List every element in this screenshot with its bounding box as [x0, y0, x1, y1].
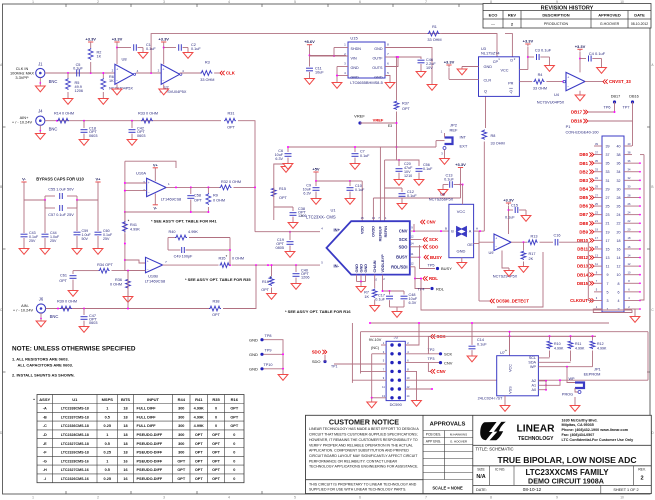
- svg-text:300: 300: [178, 433, 184, 437]
- svg-text:C3 0.1uF: C3 0.1uF: [535, 48, 552, 53]
- svg-text:DC590_DETECT: DC590_DETECT: [496, 299, 529, 304]
- svg-text:-E: -E: [43, 442, 47, 446]
- svg-text:SCALE = NONE: SCALE = NONE: [432, 485, 463, 490]
- svg-text:C49 100pF: C49 100pF: [174, 255, 193, 259]
- svg-text:2: 2: [97, 0, 99, 4]
- ground C2: [187, 50, 189, 53]
- ground C7: [354, 161, 356, 164]
- net label SCK: [423, 237, 428, 241]
- svg-text:LT1469CS8: LT1469CS8: [145, 278, 165, 283]
- svg-text:DB16: DB16: [571, 119, 583, 124]
- svg-text:TECHNOLOGY APPLICATIONS ENGINE: TECHNOLOGY APPLICATIONS ENGINEERING FOR …: [309, 465, 418, 469]
- capacitor C46: [418, 59, 425, 61]
- svg-text:LTC2326CMS-18: LTC2326CMS-18: [61, 451, 89, 455]
- svg-text:GND: GND: [484, 65, 493, 69]
- svg-text:−: −: [162, 78, 164, 82]
- svg-text:BNC: BNC: [49, 79, 58, 84]
- svg-text:7: 7: [425, 496, 427, 500]
- svg-text:SDO: SDO: [312, 350, 322, 355]
- wire 8.6V rail: [309, 48, 311, 67]
- svg-text:+ / - 10.24V: + / - 10.24V: [12, 120, 33, 125]
- svg-text:0603: 0603: [89, 134, 97, 138]
- svg-text:WP: WP: [530, 365, 536, 369]
- wire U6 OE: [474, 243, 479, 245]
- svg-text:A0: A0: [531, 388, 536, 392]
- svg-text:*: *: [301, 214, 303, 219]
- resistor R14: [57, 118, 69, 123]
- svg-text:C55 1.0uF 50V: C55 1.0uF 50V: [48, 188, 74, 192]
- svg-text:0.5: 0.5: [105, 468, 110, 472]
- wire R15 down: [273, 199, 275, 221]
- svg-text:SCK: SCK: [399, 237, 408, 242]
- svg-text:TP9: TP9: [265, 349, 272, 353]
- svg-text:R14 0 OHM: R14 0 OHM: [54, 112, 74, 116]
- svg-text:*: *: [128, 219, 130, 224]
- svg-text:R7: R7: [364, 291, 369, 295]
- ground C14: [471, 354, 473, 357]
- IC U6 NC7SZ66: [449, 204, 474, 257]
- svg-text:-D: -D: [43, 433, 47, 437]
- svg-text:HOWEVER, IT REMAINS THE CUSTOM: HOWEVER, IT REMAINS THE CUSTOMER'S RESPO…: [309, 438, 418, 442]
- capacitor C49: [181, 247, 183, 253]
- svg-text:31: 31: [606, 179, 610, 183]
- IC U3 NL17SZ74: [479, 57, 520, 97]
- customer notice block: [422, 415, 424, 493]
- svg-text:18: 18: [123, 424, 127, 428]
- svg-text:G.HOOVER: G.HOOVER: [600, 22, 620, 26]
- resistor R41: [124, 212, 126, 221]
- capacitor C13: [449, 181, 451, 188]
- svg-text:OUTF: OUTF: [372, 56, 383, 60]
- svg-text:OPT: OPT: [212, 468, 220, 472]
- svg-text:LT1469CS8: LT1469CS8: [161, 197, 181, 202]
- svg-text:CNV: CNV: [427, 220, 436, 225]
- svg-text:24LC024-I /ST: 24LC024-I /ST: [478, 397, 503, 401]
- svg-text:R17: R17: [529, 252, 536, 256]
- svg-text:25: 25: [606, 205, 610, 209]
- capacitor C14: [471, 323, 473, 345]
- wire OVDD: [460, 170, 462, 185]
- wire J3 pin3: [372, 353, 386, 355]
- svg-text:0 OHM: 0 OHM: [232, 257, 244, 261]
- svg-text:3.3VPP: 3.3VPP: [15, 75, 29, 80]
- ground U9: [502, 251, 509, 269]
- wire J3 pin1: [381, 344, 386, 346]
- svg-text:11: 11: [606, 265, 610, 269]
- net label CNV J3: [431, 369, 436, 373]
- svg-text:1K: 1K: [364, 295, 369, 299]
- ground C61: [72, 288, 74, 291]
- svg-text:+3.3V: +3.3V: [158, 37, 169, 42]
- svg-text:DB14: DB14: [577, 272, 589, 277]
- approvals block: [472, 415, 474, 493]
- wire J3 pin13 gnd: [372, 397, 386, 399]
- svg-text:C7: C7: [360, 150, 365, 154]
- resistor R6: [102, 73, 104, 78]
- wire R32 to IN+: [234, 186, 256, 188]
- svg-text:36: 36: [617, 162, 621, 166]
- svg-text:9V-10V: 9V-10V: [369, 338, 382, 342]
- wire U6 VCC: [462, 185, 464, 205]
- svg-text:SCK: SCK: [444, 352, 453, 357]
- svg-text:PCB DES.: PCB DES.: [426, 433, 441, 437]
- svg-text:1: 1: [607, 308, 609, 312]
- svg-text:18: 18: [123, 415, 127, 419]
- svg-text:* SEE ASS'Y OPT. TABLE FOR R16: * SEE ASS'Y OPT. TABLE FOR R16: [285, 309, 351, 314]
- svg-text:FULL DIFF: FULL DIFF: [137, 407, 157, 411]
- svg-text:22: 22: [617, 222, 621, 226]
- svg-text:C61: C61: [60, 274, 67, 278]
- svg-text:DB6: DB6: [579, 204, 588, 209]
- net label DC590_DETECT: [490, 299, 495, 303]
- svg-text:NL17SZ74: NL17SZ74: [481, 51, 500, 56]
- svg-text:INPUT: INPUT: [147, 397, 160, 402]
- wire R34 left: [88, 270, 99, 272]
- svg-text:0.25: 0.25: [104, 424, 111, 428]
- svg-text:CNV: CNV: [399, 229, 408, 234]
- svg-text:PSEUDO-DIFF: PSEUDO-DIFF: [137, 459, 163, 463]
- svg-text:0.1uF: 0.1uF: [423, 167, 433, 171]
- svg-text:1: 1: [106, 407, 108, 411]
- svg-text:35: 35: [606, 162, 610, 166]
- svg-text:DB4: DB4: [579, 187, 588, 192]
- wire CNV net: [410, 230, 449, 232]
- svg-text:0.1uF: 0.1uF: [407, 194, 417, 198]
- svg-text:300: 300: [178, 415, 184, 419]
- svg-text:OPT: OPT: [212, 451, 220, 455]
- svg-text:BUSY: BUSY: [396, 255, 408, 260]
- svg-text:DB17: DB17: [571, 110, 583, 115]
- svg-text:MSPS: MSPS: [102, 397, 114, 402]
- svg-text:2. INSTALL SHUNTS AS SHOWN.: 2. INSTALL SHUNTS AS SHOWN.: [12, 372, 75, 377]
- resistor R13: [528, 240, 538, 245]
- ground C46: [420, 69, 422, 72]
- svg-text:18: 18: [123, 407, 127, 411]
- svg-text:DB9: DB9: [579, 229, 588, 234]
- ground C56: [418, 177, 420, 180]
- ground J1: [39, 84, 41, 87]
- svg-text:CNVST_33: CNVST_33: [609, 79, 631, 84]
- svg-text:BITS: BITS: [121, 397, 130, 402]
- svg-text:APPROVED: APPROVED: [598, 13, 621, 18]
- svg-text:10: 10: [620, 496, 624, 500]
- wire bus tp: [351, 323, 353, 383]
- svg-text:R16: R16: [262, 280, 269, 284]
- svg-text:NC7SZ94P5X: NC7SZ94P5X: [493, 274, 518, 279]
- svg-text:R39 0 OHM: R39 0 OHM: [57, 300, 77, 304]
- svg-text:4: 4: [228, 0, 230, 4]
- wires U7 pins right: [538, 357, 549, 359]
- ground C10: [349, 196, 351, 199]
- wire bus RDL row: [421, 279, 632, 311]
- svg-text:CLR: CLR: [484, 78, 492, 82]
- svg-text:PSEUDO-DIFF: PSEUDO-DIFF: [137, 442, 163, 446]
- svg-text:TP7: TP7: [623, 106, 630, 110]
- svg-text:REVISION HISTORY: REVISION HISTORY: [541, 5, 594, 11]
- net label CNV: [421, 220, 426, 224]
- svg-text:2: 2: [618, 308, 620, 312]
- wire R41 bottom node: [124, 244, 126, 271]
- ground U15 gnd5: [389, 80, 391, 83]
- svg-text:APP ENG.: APP ENG.: [426, 440, 442, 444]
- wire DC590_DETECT: [479, 300, 490, 302]
- svg-text:VCC: VCC: [500, 69, 508, 73]
- wire J3 pin7: [361, 370, 387, 372]
- svg-text:OPT: OPT: [195, 468, 203, 472]
- svg-text:1630 McCarthy Blvd.: 1630 McCarthy Blvd.: [562, 418, 598, 422]
- ground U2: [163, 84, 165, 86]
- svg-text:0.5: 0.5: [105, 442, 110, 446]
- wire R4 to U4: [546, 81, 566, 83]
- svg-text:OPT: OPT: [261, 288, 269, 292]
- svg-text:J4: J4: [38, 109, 43, 114]
- svg-text:DB8: DB8: [579, 221, 588, 226]
- ground J3 left: [371, 400, 373, 403]
- ground R36: [127, 294, 129, 297]
- wire U3 PR to R4: [519, 81, 532, 83]
- wire J3 pin5 tp1: [334, 363, 386, 365]
- svg-text:50V: 50V: [82, 237, 89, 241]
- svg-text:R37: R37: [402, 102, 409, 106]
- svg-text:18: 18: [123, 433, 127, 437]
- ground C6: [287, 161, 289, 164]
- svg-text:OUTS: OUTS: [372, 66, 383, 70]
- svg-text:OPT: OPT: [194, 199, 202, 203]
- svg-text:V-: V-: [22, 176, 26, 181]
- svg-text:18: 18: [617, 239, 621, 243]
- svg-text:6.3V: 6.3V: [275, 157, 283, 161]
- svg-text:SDO: SDO: [399, 244, 409, 249]
- capacitor C17: [389, 291, 391, 295]
- svg-text:OPT: OPT: [230, 424, 238, 428]
- svg-text:6: 6: [359, 496, 361, 500]
- svg-text:24: 24: [617, 213, 621, 217]
- wire R31 to IN+ node: [238, 121, 255, 232]
- wire C58 R9 return: [125, 211, 208, 213]
- svg-text:0: 0: [233, 468, 235, 472]
- svg-text:DC590: DC590: [390, 402, 403, 407]
- svg-text:GND: GND: [249, 367, 258, 372]
- svg-text:R35: R35: [212, 397, 220, 402]
- net label CNVST_33: [603, 79, 608, 83]
- wire J3 pin12: [405, 388, 432, 390]
- svg-text:R32 0 OHM: R32 0 OHM: [221, 180, 241, 184]
- svg-text:PRODUCTION: PRODUCTION: [544, 22, 569, 26]
- svg-text:TP6: TP6: [604, 106, 611, 110]
- svg-text:RDL: RDL: [429, 276, 438, 281]
- svg-text:DEMO CIRCUIT 1908A: DEMO CIRCUIT 1908A: [528, 477, 604, 486]
- svg-text:6: 6: [618, 290, 620, 294]
- svg-text:APPLICATION. COMPONENT SUBSTI: APPLICATION. COMPONENT SUBSTITUTION AND …: [309, 449, 409, 453]
- svg-text:+: +: [147, 259, 149, 263]
- svg-text:C58: C58: [194, 194, 201, 198]
- svg-text:PSEUDO-DIFF: PSEUDO-DIFF: [137, 468, 163, 472]
- svg-text:4.99K: 4.99K: [130, 228, 140, 232]
- svg-text:LTC2336CMS-18: LTC2336CMS-18: [61, 424, 89, 428]
- svg-text:300: 300: [178, 451, 184, 455]
- svg-text:R3: R3: [205, 61, 210, 65]
- svg-text:U1: U1: [330, 208, 336, 213]
- svg-text:+: +: [116, 68, 118, 72]
- svg-text:38: 38: [617, 153, 621, 157]
- svg-text:6.3V: 6.3V: [303, 192, 311, 196]
- svg-text:R36: R36: [115, 278, 122, 282]
- svg-text:R16: R16: [231, 397, 239, 402]
- capacitor C3: [528, 56, 534, 58]
- svg-text:OPT: OPT: [177, 477, 185, 481]
- svg-text:C4 0.1uF: C4 0.1uF: [589, 51, 606, 56]
- svg-text:VIN: VIN: [351, 56, 357, 60]
- svg-text:4.99K: 4.99K: [194, 407, 204, 411]
- svg-text:R1: R1: [432, 25, 437, 29]
- svg-text:LTC2327CMS-16: LTC2327CMS-16: [61, 468, 89, 472]
- svg-text:8: 8: [490, 496, 492, 500]
- resistor R17: [523, 242, 525, 250]
- svg-text:30: 30: [617, 187, 621, 191]
- svg-text:DB5: DB5: [579, 195, 588, 200]
- capacitor C2: [178, 44, 180, 51]
- svg-text:A: A: [469, 229, 472, 233]
- svg-text:-H: -H: [43, 468, 47, 472]
- svg-text:300: 300: [178, 407, 184, 411]
- wire VDDLBYP: [382, 275, 384, 291]
- svg-text:V+: V+: [95, 176, 101, 181]
- connector J6 BNC: [36, 304, 45, 313]
- svg-text:5: 5: [294, 496, 296, 500]
- svg-text:U8: U8: [121, 57, 127, 62]
- ground U3: [461, 67, 463, 70]
- wire U10A output: [166, 186, 220, 188]
- svg-text:12: 12: [410, 262, 414, 266]
- svg-text:10V: 10V: [426, 66, 433, 70]
- svg-text:GND: GND: [351, 75, 360, 79]
- svg-text:21: 21: [606, 222, 610, 226]
- svg-text:IN-: IN-: [334, 263, 340, 268]
- svg-text:1210: 1210: [404, 174, 412, 178]
- resistor R8: [482, 130, 487, 140]
- svg-text:9: 9: [607, 273, 609, 277]
- svg-text:0603: 0603: [137, 134, 145, 138]
- svg-text:17: 17: [606, 239, 610, 243]
- svg-text:GND: GND: [374, 75, 383, 79]
- svg-text:OPT: OPT: [195, 459, 203, 463]
- wires U1 gnd pins: [356, 275, 358, 282]
- svg-text:6: 6: [359, 0, 361, 4]
- svg-text:0: 0: [215, 415, 217, 419]
- svg-text:LTC Confidential-For Customer: LTC Confidential-For Customer Use Only: [562, 438, 635, 442]
- capacitor C10: [349, 181, 351, 186]
- svg-text:+3.3V: +3.3V: [112, 37, 123, 42]
- svg-text:REV.: REV.: [638, 468, 646, 472]
- svg-text:OPT: OPT: [212, 313, 220, 317]
- ground C11: [309, 76, 311, 79]
- svg-text:SHEET 1 OF 2: SHEET 1 OF 2: [613, 488, 638, 492]
- svg-text:REV: REV: [508, 13, 517, 18]
- svg-text:B: B: [451, 229, 454, 233]
- wire R13 to C16: [540, 241, 554, 243]
- svg-text:DB2: DB2: [579, 169, 588, 174]
- svg-text:EXT: EXT: [460, 144, 468, 149]
- svg-text:R34 OPT: R34 OPT: [97, 263, 114, 267]
- svg-text:SCL: SCL: [529, 356, 536, 360]
- IC U15 LTC6655: [348, 42, 385, 78]
- svg-text:1. ALL RESISTORS ARE 0603.: 1. ALL RESISTORS ARE 0603.: [12, 357, 69, 362]
- svg-text:SHDN: SHDN: [351, 47, 362, 51]
- svg-text:GND: GND: [374, 47, 383, 51]
- svg-text:CNV: CNV: [444, 360, 453, 365]
- svg-text:0603: 0603: [89, 321, 97, 325]
- connector J4 BNC: [36, 116, 45, 125]
- svg-text:TITLE: SCHEMATIC: TITLE: SCHEMATIC: [476, 447, 514, 452]
- svg-text:BUSY: BUSY: [430, 255, 442, 260]
- svg-text:BNC: BNC: [50, 314, 59, 319]
- svg-text:OPT: OPT: [195, 477, 203, 481]
- wires U15 left pins: [334, 47, 348, 49]
- wire U8 to U2: [136, 72, 162, 74]
- wire J3 pin4 sck: [405, 353, 440, 355]
- svg-text:LTC23XX- CMS: LTC23XX- CMS: [306, 215, 336, 220]
- svg-text:LTC6655BHMS8-5: LTC6655BHMS8-5: [350, 80, 383, 85]
- Linear Technology logo: [480, 422, 506, 440]
- ground C48: [396, 307, 398, 309]
- svg-text:+3.3V: +3.3V: [444, 60, 455, 65]
- assembly options table: [37, 395, 244, 483]
- svg-text:TP3: TP3: [428, 357, 435, 361]
- svg-text:OPT: OPT: [227, 126, 235, 130]
- svg-text:0.1uF: 0.1uF: [505, 216, 515, 220]
- svg-text:C15: C15: [511, 204, 518, 208]
- capacitor C20: [398, 160, 400, 166]
- svg-text:CIRCUIT THAT MEETS CUSTOMER-SU: CIRCUIT THAT MEETS CUSTOMER-SUPPLIED SPE…: [309, 433, 418, 437]
- svg-text:IN+: IN+: [334, 227, 341, 232]
- svg-text:PSEUDO-DIFF: PSEUDO-DIFF: [137, 433, 163, 437]
- resistor R2: [90, 45, 92, 48]
- wire U6 A out: [474, 230, 485, 232]
- svg-text:10uF: 10uF: [315, 70, 324, 74]
- svg-text:0 OHM: 0 OHM: [110, 283, 122, 287]
- svg-text:SDO: SDO: [429, 244, 439, 249]
- buffer U2: [161, 64, 180, 84]
- svg-text:U1: U1: [72, 397, 78, 402]
- ground C3: [549, 63, 551, 66]
- svg-text:40: 40: [617, 145, 621, 149]
- inverter U8: [115, 64, 133, 84]
- svg-text:GND: GND: [364, 264, 368, 273]
- border zone ticks: [65, 4, 67, 7]
- svg-text:4.99K: 4.99K: [575, 347, 585, 351]
- wire U4 out: [585, 81, 603, 83]
- svg-text:Q: Q: [484, 90, 487, 94]
- svg-text:11: 11: [411, 252, 414, 256]
- wire R38 to R35 node: [208, 308, 210, 310]
- svg-text:34: 34: [617, 170, 621, 174]
- svg-text:FULL DIFF: FULL DIFF: [137, 415, 157, 419]
- svg-text:+: +: [162, 68, 164, 72]
- svg-text:1: 1: [106, 433, 108, 437]
- svg-text:BYPASS CAPS FOR U10: BYPASS CAPS FOR U10: [36, 177, 84, 182]
- svg-text:R11: R11: [575, 342, 581, 346]
- svg-text:33 OHM: 33 OHM: [491, 142, 505, 146]
- svg-text:VDDLBYP: VDDLBYP: [381, 254, 385, 273]
- ground C59: [76, 246, 78, 249]
- title rows: [473, 444, 652, 446]
- svg-text:+3.3V: +3.3V: [455, 162, 466, 167]
- ground U15 gnd8: [431, 82, 433, 85]
- wire AIN- vertical to R34: [127, 271, 129, 309]
- capacitor C61: [73, 270, 88, 272]
- svg-text:U15: U15: [350, 36, 358, 41]
- capacitor C16: [554, 239, 556, 246]
